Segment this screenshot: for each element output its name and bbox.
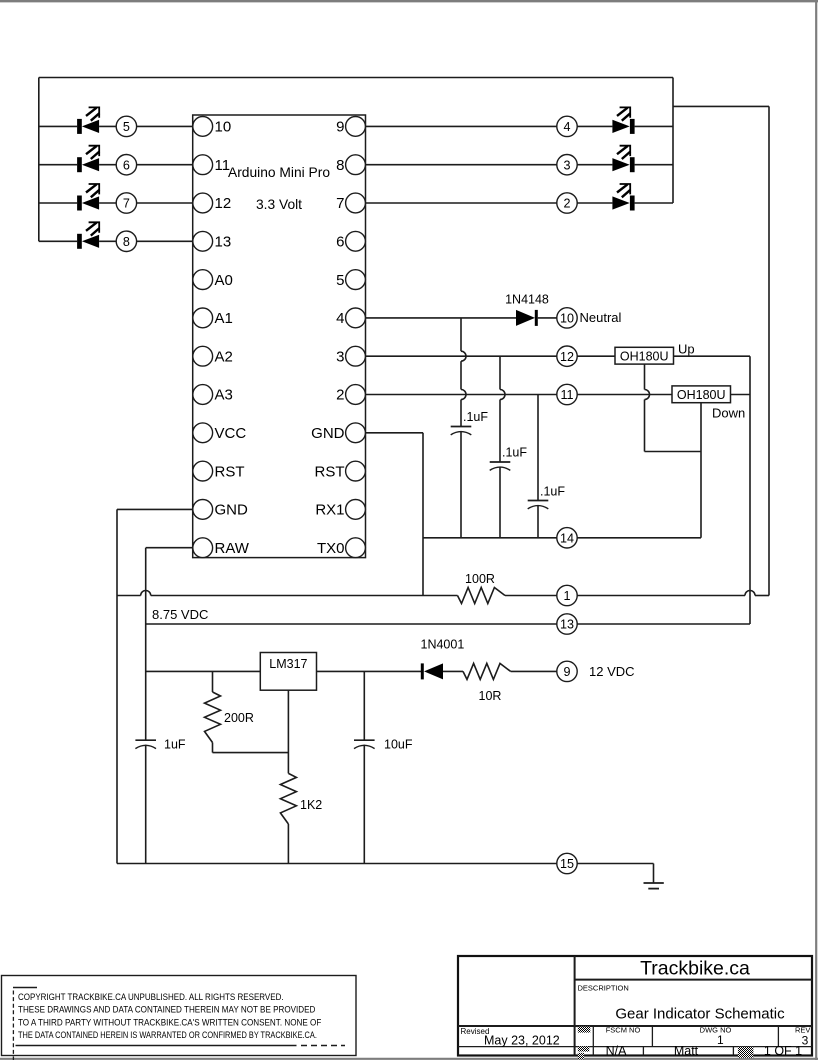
svg-text:10uF: 10uF (384, 738, 413, 752)
svg-text:7: 7 (123, 197, 130, 211)
svg-text:200R: 200R (224, 711, 254, 725)
svg-text:3: 3 (563, 158, 570, 172)
svg-text:13: 13 (215, 234, 232, 251)
svg-text:12: 12 (215, 195, 232, 212)
svg-text:Down: Down (712, 406, 745, 421)
svg-text:Arduino Mini Pro: Arduino Mini Pro (228, 165, 330, 180)
svg-text:8: 8 (336, 157, 344, 174)
svg-text:DWG NO: DWG NO (700, 1025, 732, 1034)
svg-text:THESE DRAWINGS AND DATA CONTAI: THESE DRAWINGS AND DATA CONTAINED THEREI… (18, 1005, 316, 1016)
svg-text:1uF: 1uF (164, 738, 186, 752)
svg-text:3: 3 (802, 1034, 809, 1048)
svg-text:5: 5 (123, 120, 130, 134)
svg-text:1K2: 1K2 (300, 798, 322, 812)
svg-text:6: 6 (123, 158, 130, 172)
svg-text:.1uF: .1uF (463, 410, 488, 424)
svg-text:1N4148: 1N4148 (505, 293, 549, 307)
svg-text:TX0: TX0 (317, 540, 345, 557)
svg-text:4: 4 (336, 310, 344, 327)
svg-text:12 VDC: 12 VDC (589, 664, 635, 679)
svg-text:6: 6 (336, 234, 344, 251)
svg-text:8.75 VDC: 8.75 VDC (152, 607, 208, 622)
svg-text:100R: 100R (465, 572, 495, 586)
svg-text:2: 2 (336, 387, 344, 404)
svg-text:10R: 10R (479, 689, 502, 703)
svg-text:1: 1 (563, 589, 570, 603)
svg-text:TO A THIRD PARTY WITHOUT TRACK: TO A THIRD PARTY WITHOUT TRACKBIKE.CA'S … (18, 1017, 321, 1028)
svg-text:13: 13 (560, 618, 574, 632)
svg-text:OH180U: OH180U (677, 388, 726, 402)
svg-text:8: 8 (123, 235, 130, 249)
svg-text:10: 10 (560, 312, 574, 326)
svg-text:5: 5 (336, 272, 344, 289)
svg-text:A0: A0 (215, 272, 233, 289)
svg-text:Neutral: Neutral (580, 310, 622, 325)
svg-text:7: 7 (336, 195, 344, 212)
svg-text:A2: A2 (215, 348, 233, 365)
svg-text:RX1: RX1 (315, 502, 344, 519)
svg-text:FSCM NO: FSCM NO (606, 1025, 641, 1034)
svg-text:COPYRIGHT TRACKBIKE.CA UNPUBLI: COPYRIGHT TRACKBIKE.CA UNPUBLISHED. ALL … (18, 992, 284, 1003)
svg-text:LM317: LM317 (269, 657, 307, 671)
svg-text:OH180U: OH180U (620, 349, 669, 363)
svg-text:Gear Indicator Schematic: Gear Indicator Schematic (615, 1006, 785, 1023)
svg-text:Trackbike.ca: Trackbike.ca (640, 957, 750, 979)
svg-text:9: 9 (563, 665, 570, 679)
svg-text:10: 10 (215, 119, 232, 136)
svg-text:12: 12 (560, 350, 574, 364)
svg-text:RAW: RAW (215, 540, 250, 557)
svg-text:N/A: N/A (606, 1044, 628, 1058)
svg-text:11: 11 (560, 388, 573, 402)
svg-text:3: 3 (336, 348, 344, 365)
svg-text:Up: Up (678, 342, 695, 357)
svg-text:DESCRIPTION: DESCRIPTION (578, 984, 629, 993)
svg-text:2: 2 (563, 197, 570, 211)
svg-text:VCC: VCC (215, 425, 247, 442)
svg-text:1: 1 (717, 1033, 724, 1047)
svg-text:GND: GND (215, 502, 249, 519)
svg-text:1N4001: 1N4001 (421, 638, 465, 652)
svg-text:14: 14 (560, 531, 574, 545)
svg-text:.1uF: .1uF (540, 485, 565, 499)
svg-text:Matt: Matt (674, 1044, 699, 1058)
svg-text:RST: RST (315, 463, 345, 480)
svg-text:A3: A3 (215, 387, 233, 404)
svg-text:May 23, 2012: May 23, 2012 (484, 1034, 560, 1048)
svg-text:RST: RST (215, 463, 245, 480)
svg-text:4: 4 (563, 120, 570, 134)
svg-text:.1uF: .1uF (502, 446, 527, 460)
svg-text:1 OF 1: 1 OF 1 (764, 1044, 802, 1058)
svg-text:3.3 Volt: 3.3 Volt (256, 197, 302, 212)
svg-text:A1: A1 (215, 310, 233, 327)
svg-text:THE DATA CONTAINED HEREIN IS W: THE DATA CONTAINED HEREIN IS WARRANTED O… (18, 1030, 317, 1041)
svg-text:GND: GND (311, 425, 345, 442)
svg-text:9: 9 (336, 119, 344, 136)
svg-text:15: 15 (560, 857, 574, 871)
